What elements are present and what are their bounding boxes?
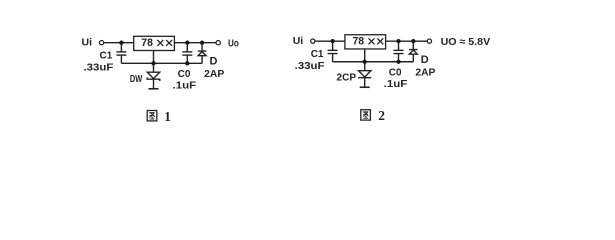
svg-text:2CP: 2CP [337,72,357,83]
svg-text:Uo: Uo [228,37,239,49]
node: common pin / bottom rail junction [151,61,155,65]
svg-text:DW: DW [130,74,143,85]
node: D top junction [200,41,204,45]
regulator U2 78xx box [345,35,386,49]
svg-text:.33uF: .33uF [295,61,325,72]
svg-text:C1: C1 [311,49,324,60]
svg-text:78: 78 [353,36,365,48]
capacitor C0 .1uF [182,43,192,64]
svg-text:78: 78 [141,37,153,49]
wire: input terminal to regulator input [104,42,134,44]
node: D top junction [411,39,415,43]
svg-text:.1uF: .1uF [173,80,197,91]
wire: regulator common pin down to bottom rail [364,49,366,62]
diode D 2AP (protection, cathode up) [409,41,418,62]
svg-text:C0: C0 [178,69,191,80]
capacitor C1 .33uF [328,41,338,62]
svg-text:C1: C1 [100,51,113,62]
capacitor C1 .33uF [116,43,126,64]
svg-text:2AP: 2AP [204,69,224,80]
node: C0 bottom junction [185,61,189,65]
terminal Ui (input, circuit 2) [311,39,315,43]
svg-text:Ui: Ui [82,37,93,49]
caption 图 1 (figure 1) [147,111,157,121]
node: common pin / bottom rail junction [363,60,367,64]
svg-text:.33uF: .33uF [84,63,114,74]
svg-text:UO ≈ 5.8V: UO ≈ 5.8V [441,36,491,48]
node: C0 top junction [185,41,189,45]
svg-text:Ui: Ui [293,35,304,47]
svg-text:C0: C0 [389,67,402,78]
svg-text:2: 2 [378,108,385,123]
caption 图 2 (figure 2) [361,110,371,120]
svg-text:D: D [210,55,218,67]
regulator U1 78xx box [134,36,175,50]
svg-text:1: 1 [164,109,171,124]
node: C0 bottom junction [396,60,400,64]
terminal Ui (input, circuit 1) [99,41,103,45]
node: C1 top junction [119,41,123,45]
wire: bottom rail [333,61,414,63]
svg-text:D: D [421,54,429,66]
ground terminal bar under 2CP [360,86,370,88]
node: C0 top junction [396,39,400,43]
terminal Uo (output, circuit 1) [216,41,220,45]
terminal Uo (output, circuit 2) [427,39,431,43]
svg-text:2AP: 2AP [415,67,435,78]
wire: regulator output to output terminal [174,42,216,44]
diode D 2AP (protection, cathode up) [198,43,207,64]
svg-text:.1uF: .1uF [384,79,408,90]
zener diode DW (cathode down, to ground) [147,63,160,89]
node: C1 top junction [330,39,334,43]
wire: input terminal to regulator input [315,40,345,42]
wire: regulator output to output terminal [386,40,428,42]
diode 2CP (cathode down, to ground) [358,62,371,88]
wire: bottom rail [121,62,202,64]
ground terminal bar under DW [149,88,159,90]
capacitor C0 .1uF [394,41,404,62]
wire: regulator common pin down to bottom rail [153,51,155,64]
